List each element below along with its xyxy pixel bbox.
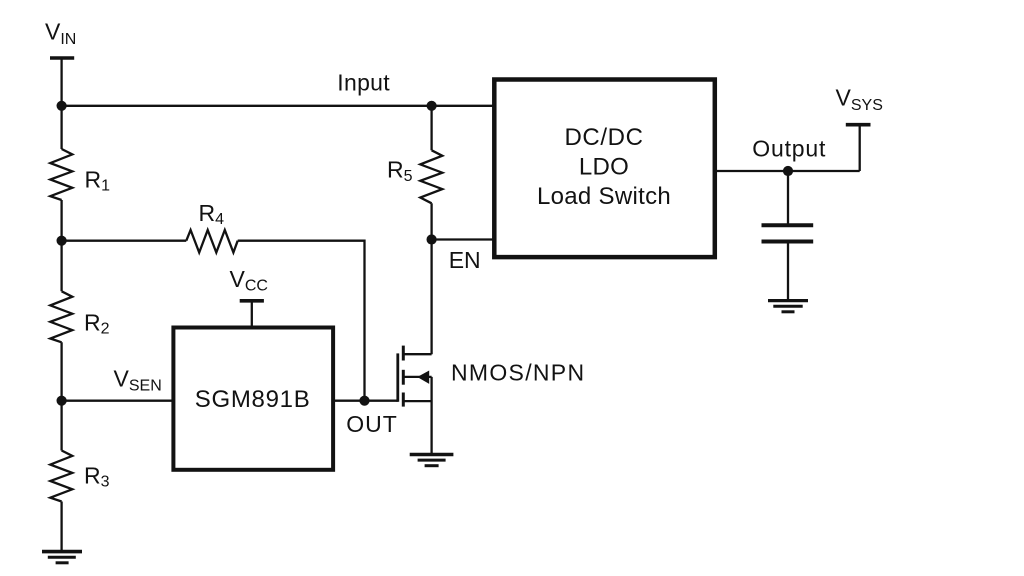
power symbol VSYS xyxy=(846,125,871,171)
svg-text:Load Switch: Load Switch xyxy=(537,183,671,210)
node VSEN junction xyxy=(57,396,67,406)
wire output xyxy=(715,170,860,172)
wire input node to R5 xyxy=(430,106,432,151)
ground under C1 xyxy=(768,301,808,312)
node R1-R4 junction xyxy=(57,236,67,246)
transistor Q1 body arrow xyxy=(417,371,429,384)
resistor R3 xyxy=(50,451,72,502)
wire EN to block xyxy=(432,238,494,240)
wire R1 to R2 xyxy=(60,200,62,291)
svg-text:DC/DC: DC/DC xyxy=(565,124,644,151)
svg-text:EN: EN xyxy=(449,247,481,273)
resistor R2 xyxy=(50,291,72,342)
wire VIN to R1 xyxy=(60,106,62,149)
wire R5 to EN node xyxy=(430,203,432,239)
wire R4 left segment xyxy=(62,240,187,242)
node OUT junction xyxy=(359,396,369,406)
svg-text:NMOS/NPN: NMOS/NPN xyxy=(451,360,585,386)
IC U1 SGM891B xyxy=(173,328,333,470)
wire EN node to drain xyxy=(430,240,432,355)
power symbol VCC xyxy=(240,301,264,328)
svg-text:LDO: LDO xyxy=(579,154,629,181)
svg-text:OUT: OUT xyxy=(346,411,398,437)
ground bottom-left xyxy=(42,552,82,563)
wire C1 to ground xyxy=(787,242,789,301)
resistor R1 xyxy=(50,149,72,200)
wire R3 to ground xyxy=(60,502,62,552)
node EN junction xyxy=(427,234,437,244)
IC U2 DC/DC LDO Load Switch xyxy=(494,80,715,258)
power symbol VIN xyxy=(50,58,74,106)
node input-left junction xyxy=(57,101,67,111)
resistor R5 xyxy=(420,150,442,203)
wire VSEN xyxy=(62,400,173,402)
wire OUT xyxy=(335,400,398,402)
transistor Q1 NMOS xyxy=(398,346,432,455)
svg-text:SGM891B: SGM891B xyxy=(195,386,311,413)
wire input rail xyxy=(62,105,494,107)
svg-text:Output: Output xyxy=(752,136,826,162)
capacitor C1 xyxy=(762,225,814,241)
ground under Q1 xyxy=(410,455,454,466)
wire output to C1 xyxy=(787,171,789,225)
node output junction xyxy=(783,166,793,176)
wire R4 to OUT node xyxy=(238,241,365,401)
wire R2 to R3 xyxy=(60,342,62,450)
node input-R5 junction xyxy=(427,101,437,111)
resistor R4 xyxy=(186,230,237,253)
svg-text:Input: Input xyxy=(337,70,390,96)
